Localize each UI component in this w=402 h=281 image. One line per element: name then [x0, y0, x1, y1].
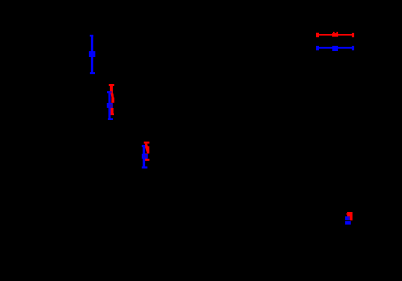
- star marker right bump: [147, 145, 148, 148]
- errorbar top cap: [144, 142, 150, 144]
- data point 4 (blue square marker, drawn over red): [345, 216, 351, 224]
- errorbar upper line: [110, 86, 113, 94]
- square marker: [142, 154, 148, 159]
- errorbar lower line: [145, 153, 147, 159]
- data point 4 (red star marker with short errorbar): [346, 212, 352, 220]
- errorbar line: [108, 92, 110, 119]
- legend blue right cap: [352, 46, 354, 50]
- purple patch (red line showing through blue square): [110, 104, 112, 107]
- data point 3 (red series, star marker with y-errorbar): [144, 142, 150, 161]
- errorbar line: [143, 146, 145, 167]
- errorbar lower line: [111, 108, 114, 114]
- data point 1 (blue series, square marker with y-errorbar): [89, 35, 95, 74]
- errorbar bottom cap: [142, 166, 148, 168]
- errorbar bottom cap: [90, 72, 95, 74]
- star marker blob: [111, 98, 114, 103]
- errorbar slanting segment: [111, 94, 114, 98]
- purple patch (red line showing through blue square): [145, 155, 147, 157]
- legend red star right bump: [336, 32, 338, 33]
- star marker left bump: [345, 213, 348, 214]
- star marker blob: [347, 212, 352, 217]
- errorbar lower line (behind square): [111, 103, 113, 108]
- star marker body (slanted left edge): [145, 146, 149, 153]
- legend red star left bump: [333, 32, 335, 33]
- data point 2 (red series, star marker with y-errorbar): [109, 84, 115, 115]
- legend blue line: [319, 47, 353, 49]
- legend red left cap: [316, 33, 319, 37]
- square marker: [345, 221, 351, 225]
- errorbar top cap: [90, 35, 93, 37]
- legend red right cap: [352, 33, 354, 37]
- errorbar upper line: [145, 144, 147, 148]
- errorbar top cap: [107, 91, 111, 93]
- errorbar bottom cap: [108, 118, 113, 120]
- legend red star body: [332, 33, 338, 37]
- errorbar line lower part: [350, 217, 353, 221]
- errorbar bottom cap: [110, 113, 114, 115]
- legend blue left cap: [316, 46, 319, 50]
- square marker: [89, 51, 95, 57]
- errorbar top cap: [109, 84, 114, 86]
- legend red line: [319, 34, 353, 36]
- errorbar bottom cap: [144, 159, 150, 161]
- legend blue sample (errorbar with square marker): [316, 46, 354, 51]
- purple blend (blue over red star): [348, 216, 350, 219]
- blue cap/line blob over red: [345, 216, 350, 220]
- data point 2 (blue series, square marker with y-errorbar, drawn over red): [107, 91, 113, 120]
- data point 3 (blue series, square marker with y-errorbar, drawn over red): [142, 145, 148, 169]
- purple blend (blue cap crossing red line): [110, 91, 112, 93]
- legend blue square marker: [332, 46, 338, 51]
- square marker: [107, 103, 113, 108]
- legend red sample (errorbar with star marker): [316, 32, 354, 37]
- errorbar top cap: [142, 145, 145, 147]
- errorbar line: [91, 35, 93, 74]
